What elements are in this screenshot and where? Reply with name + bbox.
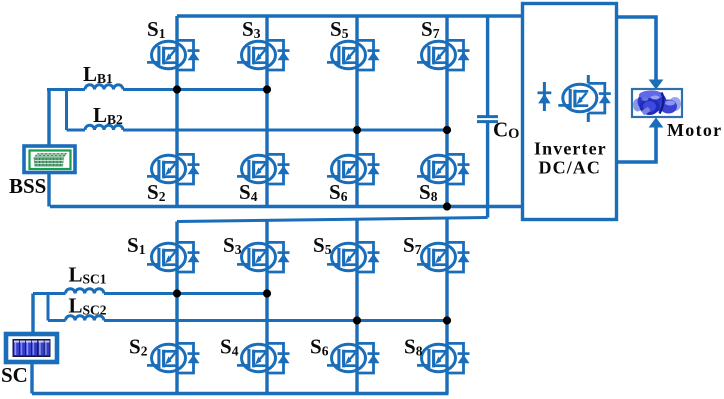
inductor LSC1 rail + coil [33,292,267,295]
wire: SC positive lead [31,294,34,335]
wire: lower top rail (line B, slanted) [177,218,488,222]
svg-text:LB2: LB2 [93,103,123,127]
wire: leg 1 (S1/S2) [175,16,178,207]
wire: lower leg 2 [265,220,268,393]
switch S1 (lower) [147,242,200,272]
switch S7 (upper) [417,40,470,70]
switch (inverter icon, MOSFET+diode) [558,83,611,113]
switch S4 (lower) [237,343,290,373]
svg-text:S6: S6 [310,335,329,359]
wire: leg 4 (S7/S8) [445,16,448,207]
svg-text:S4: S4 [220,335,239,359]
switch S4 (upper) [237,154,290,184]
switch S5 (upper) [327,40,380,70]
inductor LSC2 rail + coil [48,294,447,321]
svg-text:Inverter: Inverter [534,139,607,159]
svg-text:SC: SC [1,363,28,387]
node: LSC2-leg3 junction [353,316,361,324]
svg-text:S8: S8 [404,335,423,359]
svg-text:DC/AC: DC/AC [539,158,602,178]
switch S8 (lower) [417,343,470,373]
switch S2 (upper) [147,154,200,184]
inductor LB2 rail + coil [67,90,448,131]
wire: BSS negative lead [47,173,50,207]
switch S2 (lower) [147,343,200,373]
switch S1 (upper) [147,40,200,70]
svg-text:S3: S3 [223,233,242,257]
switch S6 (upper) [327,154,380,184]
svg-text:CO: CO [493,118,519,143]
switch S5 (lower) [327,242,380,272]
svg-text:LB1: LB1 [83,62,113,86]
node: LB2-leg4 junction [443,126,451,134]
svg-text:S2: S2 [147,180,166,204]
supercapacitor SC box [6,334,57,362]
switch S8 (upper) [417,154,470,184]
svg-text:S1: S1 [147,17,166,41]
svg-text:Motor: Motor [667,120,722,140]
svg-text:S7: S7 [421,17,440,41]
motor image box [632,89,682,117]
wire: bottom DC- rail (line A) [50,205,523,208]
capacitor Co [486,16,489,117]
battery BSS box [24,146,75,173]
svg-text:S3: S3 [242,17,261,41]
svg-text:S5: S5 [330,17,349,41]
switch S7 (lower) [417,242,470,272]
node: LSC1-leg1 junction [173,289,181,297]
node: leg4-bottom rail junction [443,202,451,210]
node: LB1-leg1 junction [173,85,181,93]
svg-text:BSS: BSS [9,174,46,198]
wire: SC negative lead [30,362,33,394]
wire: BSS positive lead [47,90,50,147]
wire: leg 2 (S3/S4) [265,16,268,207]
node: LB2-leg3 junction [353,126,361,134]
diode (inverter icon, left) [538,82,552,111]
svg-text:S7: S7 [403,233,422,257]
svg-text:S1: S1 [127,233,146,257]
wire: lower leg 4 [445,218,448,394]
wire: inverter to motor (bottom, arrow up) [617,127,657,162]
switch S6 (lower) [327,343,380,373]
wire: leg 3 (S5/S6) [355,16,358,207]
switch S3 (lower) [237,242,290,272]
inductor LB1 rail + coil [47,88,267,91]
svg-text:S5: S5 [313,233,332,257]
wire: lower leg 3 [355,219,358,393]
svg-text:LSC1: LSC1 [69,263,107,287]
svg-text:LSC2: LSC2 [69,294,107,318]
node: LB1-leg2 junction [263,85,271,93]
node: LSC2-leg4 junction [443,316,451,324]
wire: top DC+ rail [177,14,523,17]
switch S3 (upper) [237,40,290,70]
wire: lower bottom rail [32,392,449,395]
inverter DC/AC block [523,4,617,220]
svg-text:S2: S2 [129,335,148,359]
node: LSC1-leg2 junction [263,289,271,297]
wire: inverter to motor (top, arrow down) [617,17,657,80]
wire: lower leg 1 [175,222,178,394]
